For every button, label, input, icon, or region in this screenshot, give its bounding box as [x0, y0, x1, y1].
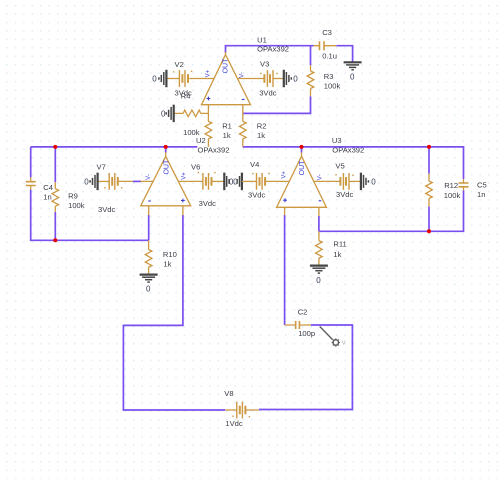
svg-text:100k: 100k	[444, 191, 461, 200]
svg-text:V2: V2	[175, 60, 184, 69]
svg-text:1k: 1k	[223, 131, 231, 140]
wire U3 plus input down to C2 left	[284, 215, 286, 325]
ground 0 for V3	[284, 70, 299, 88]
source V5	[335, 162, 361, 199]
svg-text:OPAx392: OPAx392	[198, 146, 230, 155]
svg-text:R12: R12	[444, 181, 458, 190]
op-amp U3 pin texts	[282, 160, 324, 202]
source V7	[97, 163, 123, 214]
wire U3 minus input to R11 node	[318, 216, 320, 231]
source V2	[166, 60, 192, 97]
svg-text:3Vdc: 3Vdc	[248, 190, 266, 199]
svg-text:1k: 1k	[333, 250, 341, 259]
wire C3 right to ground	[336, 46, 352, 63]
wire R9 bottom lead	[54, 212, 56, 240]
svg-text:1k: 1k	[257, 131, 265, 140]
svg-text:V+: V+	[282, 171, 288, 179]
junction dot R12 top	[427, 145, 431, 149]
resistor R1	[205, 121, 232, 146]
svg-text:V: V	[342, 341, 346, 347]
svg-text:OUT: OUT	[163, 159, 170, 175]
wire V8 right to C2	[259, 325, 353, 410]
svg-text:1n: 1n	[477, 190, 485, 199]
ground 0 for R4	[161, 105, 174, 123]
svg-text:100k: 100k	[68, 201, 85, 210]
svg-text:U1: U1	[257, 35, 267, 44]
svg-text:V6: V6	[191, 162, 200, 171]
op-amp U3	[264, 152, 340, 216]
svg-text:0: 0	[293, 75, 298, 84]
svg-text:V-: V-	[318, 175, 324, 181]
wire mid bus node OUT2/OUT3	[31, 147, 464, 179]
svg-text:R11: R11	[333, 239, 346, 248]
svg-text:1n: 1n	[43, 193, 51, 202]
capacitor C2	[285, 307, 316, 338]
ground 0 for R10	[140, 275, 158, 294]
wire U2 plus input big bottom loop to V8	[123, 215, 225, 410]
op-amp U1 pin texts	[205, 58, 245, 101]
junction dot U2 out	[164, 145, 168, 149]
svg-text:C5: C5	[477, 180, 487, 189]
resistor R9	[52, 182, 85, 212]
svg-text:0: 0	[146, 285, 151, 294]
source V4	[242, 160, 270, 200]
svg-text:V+: V+	[205, 69, 211, 77]
svg-text:R10: R10	[163, 250, 177, 259]
wire V7 to U2 pin	[133, 180, 141, 182]
svg-text:V+: V+	[181, 172, 187, 180]
wire U3 output stub	[301, 147, 303, 153]
svg-text:3Vdc: 3Vdc	[175, 88, 193, 97]
svg-text:OUT: OUT	[299, 160, 306, 176]
op-amp U2	[118, 152, 203, 215]
svg-text:R1: R1	[222, 122, 232, 131]
svg-text:V3: V3	[260, 59, 269, 68]
op-amp U2 pin texts	[146, 159, 187, 202]
ground 0 for C3	[344, 62, 362, 81]
svg-text:0: 0	[350, 72, 355, 81]
wire R12 top lead	[428, 147, 430, 174]
junction dot U3 out	[300, 145, 304, 149]
label U3 OPAx392 (under wire)	[332, 136, 364, 154]
resistor R3	[307, 65, 340, 96]
resistor R12	[426, 174, 461, 207]
svg-text:U2: U2	[196, 136, 206, 145]
svg-text:U3: U3	[332, 136, 342, 145]
ground 0 for V7	[84, 173, 97, 191]
svg-text:100k: 100k	[183, 128, 200, 137]
svg-text:OPAx392: OPAx392	[257, 44, 289, 53]
ground 0 for R11	[310, 266, 328, 286]
wire R3 bottom feedback to R2 node	[243, 96, 310, 113]
svg-text:R3: R3	[324, 72, 334, 81]
source V8	[224, 389, 258, 428]
svg-text:V4: V4	[250, 160, 259, 169]
svg-text:0.1u: 0.1u	[322, 52, 337, 61]
svg-text:0: 0	[316, 276, 321, 285]
svg-text:C2: C2	[298, 307, 308, 316]
wire left loop C4 top	[30, 147, 32, 178]
svg-text:V8: V8	[224, 389, 233, 398]
wire left loop bottom	[31, 190, 149, 241]
wire U2 minus input to R10 node	[148, 215, 150, 240]
wire R12 bottom lead	[428, 207, 430, 232]
svg-text:1k: 1k	[163, 260, 171, 269]
resistor R2	[240, 121, 267, 146]
svg-text:1Vdc: 1Vdc	[225, 419, 243, 428]
svg-text:100k: 100k	[324, 82, 341, 91]
svg-text:V7: V7	[97, 163, 106, 172]
svg-text:100p: 100p	[298, 329, 315, 338]
resistor R11	[316, 231, 347, 265]
svg-text:R2: R2	[257, 122, 267, 131]
svg-text:3Vdc: 3Vdc	[259, 88, 277, 97]
svg-text:0: 0	[152, 74, 157, 83]
ground 0 for V5	[361, 173, 376, 191]
wire U1 output to top rail	[226, 46, 314, 53]
svg-text:3Vdc: 3Vdc	[199, 199, 217, 208]
svg-text:OUT: OUT	[223, 58, 230, 74]
wire R9 top lead	[54, 147, 56, 182]
resistor R10	[145, 240, 177, 274]
svg-text:0: 0	[161, 109, 166, 118]
ground 0 for V2	[152, 70, 166, 88]
svg-text:V-: V-	[146, 174, 152, 180]
svg-text:0: 0	[84, 178, 89, 187]
svg-text:0: 0	[371, 178, 376, 187]
capacitor C3	[314, 28, 337, 60]
svg-text:3Vdc: 3Vdc	[336, 190, 354, 199]
source V6	[191, 162, 224, 207]
wire R3 top branch	[310, 46, 312, 65]
capacitor C5	[459, 179, 487, 199]
double ground 0 0 between V6 and V4	[224, 173, 242, 191]
svg-text:V-: V-	[240, 72, 246, 78]
junction dot R12 bottom	[427, 229, 431, 233]
junction dot R9 bottom	[53, 238, 57, 242]
resistor R4	[174, 91, 209, 137]
voltage probe marker	[320, 327, 340, 347]
wire U2 output stub	[165, 147, 167, 153]
capacitor C4	[26, 177, 53, 201]
junction dot R9 top	[53, 145, 57, 149]
svg-text:C3: C3	[322, 28, 332, 37]
source V3	[259, 59, 284, 97]
op-amp U1	[189, 52, 264, 121]
wire C5 bottom / right loop bottom	[319, 191, 464, 232]
svg-text:R9: R9	[68, 192, 78, 201]
svg-text:C4: C4	[43, 183, 53, 192]
svg-text:V5: V5	[335, 162, 344, 171]
svg-text:3Vdc: 3Vdc	[98, 205, 116, 214]
